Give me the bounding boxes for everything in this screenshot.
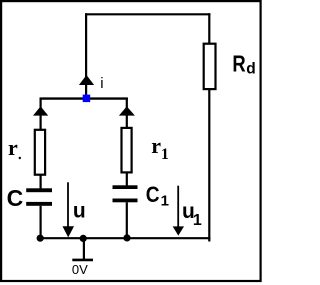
wire from capacitor C to bottom wire — [39, 206, 41, 238]
svg-text:R: R — [232, 52, 245, 77]
wire top horizontal from node to Rd — [85, 13, 210, 15]
svg-text:C: C — [146, 182, 160, 207]
label C1 — [146, 182, 169, 210]
wire right vertical lower (Rd to bottom wire) — [208, 89, 210, 242]
svg-text:1: 1 — [161, 146, 169, 163]
svg-text:0V: 0V — [72, 262, 88, 277]
voltage arrow u — [63, 182, 75, 237]
label r1 — [151, 133, 169, 163]
svg-text:r: r — [151, 133, 161, 158]
resistor r — [35, 130, 45, 175]
capacitor C1 — [113, 185, 138, 202]
wire right branch upper segment — [126, 98, 128, 128]
resistor Rd — [204, 44, 216, 89]
svg-text:1: 1 — [161, 193, 169, 210]
junction dot right branch — [123, 234, 130, 241]
svg-text:u: u — [73, 200, 86, 223]
node A (blue square junction) — [83, 95, 91, 103]
wire left vertical from top wire down to node A — [85, 13, 87, 99]
capacitor C — [26, 188, 52, 205]
wire right vertical upper (top wire to Rd) — [208, 13, 210, 43]
svg-text:i: i — [100, 75, 103, 92]
label u1 — [182, 200, 202, 229]
svg-text:C: C — [7, 185, 24, 211]
current arrow right branch — [119, 106, 135, 115]
junction dot ground — [80, 235, 87, 242]
junction dot left branch — [37, 235, 44, 242]
wire bottom horizontal — [40, 237, 211, 239]
wire from capacitor C1 to bottom wire — [126, 202, 128, 238]
current arrow i — [79, 75, 94, 85]
voltage arrow u1 — [173, 186, 184, 236]
wire from resistor r1 to capacitor C1 — [126, 172, 128, 186]
ground — [72, 238, 93, 260]
wire from resistor r to capacitor C — [39, 175, 41, 189]
svg-text:r: r — [8, 135, 18, 160]
label r subscript dot — [19, 157, 21, 159]
svg-text:d: d — [246, 61, 255, 78]
wire left branch upper segment — [39, 98, 41, 130]
wire node horizontal joining the two branches — [40, 97, 128, 99]
current arrow left branch — [33, 106, 48, 115]
resistor r1 — [122, 128, 132, 172]
svg-text:1: 1 — [193, 212, 202, 229]
label Rd — [232, 52, 255, 78]
